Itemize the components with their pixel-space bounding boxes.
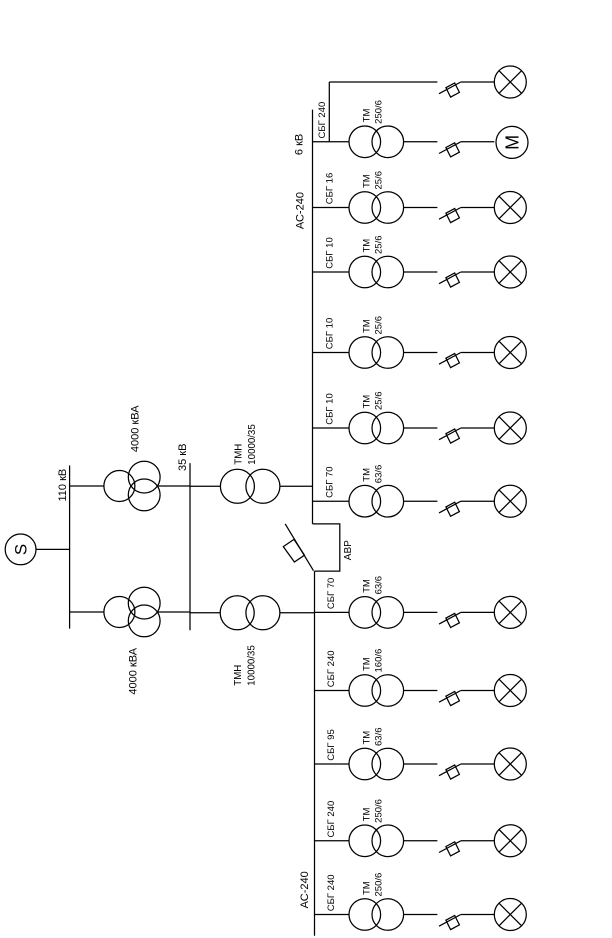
svg-text:СБГ 240: СБГ 240 (317, 102, 328, 139)
svg-text:ТМ: ТМ (362, 174, 373, 188)
svg-text:160/6: 160/6 (374, 649, 385, 673)
transformer T2 4000 кВА (three-winding) (104, 587, 160, 637)
wire switch to load (F8) (461, 690, 495, 692)
wire tap F7 from 6kV bus (315, 611, 350, 613)
svg-text:ТМ: ТМ (362, 319, 373, 333)
svg-text:СБГ 16: СБГ 16 (325, 173, 336, 204)
wire tap F2 from 6kV bus (313, 207, 350, 209)
bus 110 кВ (69, 466, 71, 629)
wire switch to load (F2) (461, 207, 495, 209)
transformer ТМ 25/6 (F2) (349, 192, 404, 224)
label ТМ 63/6 (F7) (362, 576, 385, 595)
label ТМ 63/6 (F9) (362, 728, 385, 747)
transformer T4 ТМН 10000/35 (220, 596, 280, 630)
wire bus110 to transformer T2 (70, 611, 104, 613)
wire bus35 to transformer T4 (190, 612, 220, 614)
АВР tie link (U jog) (313, 524, 340, 571)
wire tap F9 from 6kV bus (315, 763, 350, 765)
svg-text:ТМ: ТМ (362, 731, 373, 745)
transformer T3 ТМН 10000/35 (220, 469, 280, 503)
label ТМН 10000/35 (T3) (234, 424, 259, 464)
wire transformer to switch (F3) (404, 271, 438, 273)
svg-text:25/6: 25/6 (374, 236, 385, 255)
svg-text:СБГ 10: СБГ 10 (325, 237, 336, 268)
switch (disconnector with breaker) (439, 612, 461, 627)
wire branch from feeder F1 to feeder A (328, 82, 330, 142)
wire tap F1 from 6kV bus (313, 141, 350, 143)
svg-text:10000/35: 10000/35 (247, 424, 258, 464)
АВР breaker square (283, 539, 304, 562)
svg-text:ТМ: ТМ (362, 881, 373, 895)
wire tap F6 from 6kV bus (313, 500, 350, 502)
wire tap F11 from 6kV bus (315, 914, 350, 916)
wire transformer to switch (F7) (404, 611, 438, 613)
wire switch to load (F9) (461, 763, 495, 765)
label ТМ 63/6 (F6) (362, 465, 385, 484)
transformer ТМ 63/6 (F9) (349, 748, 404, 780)
switch (disconnector with breaker) (439, 915, 461, 930)
wire T3 to 6kV bus section 1 (280, 485, 313, 487)
transformer ТМ 25/6 (F4) (349, 337, 404, 369)
svg-text:ТМ: ТМ (362, 108, 373, 122)
wire feeder A drop (329, 81, 437, 83)
svg-text:СБГ 70: СБГ 70 (326, 578, 337, 609)
label ТМ 25/6 (F3) (362, 236, 385, 255)
wire switch to load (F3) (461, 271, 495, 273)
wire transformer to switch (F2) (404, 207, 438, 209)
svg-text:250/6: 250/6 (374, 799, 385, 823)
svg-text:АС-240: АС-240 (299, 871, 311, 908)
svg-text:СБГ 240: СБГ 240 (326, 650, 337, 687)
label ТМ 160/6 (F8) (362, 649, 385, 673)
svg-text:ТМ: ТМ (362, 239, 373, 253)
transformer ТМ 250/6 (F1) (349, 126, 404, 158)
wire transformer to switch (F5) (404, 427, 438, 429)
wire tap F10 from 6kV bus (315, 840, 350, 842)
svg-text:СБГ 70: СБГ 70 (325, 466, 336, 497)
wire tap F5 from 6kV bus (313, 427, 350, 429)
АВР switch blade (285, 524, 313, 571)
wire T2 to 35kV bus (157, 611, 190, 613)
lamp load (F10) (494, 825, 526, 857)
lamp load (F4) (494, 337, 526, 369)
svg-text:25/6: 25/6 (374, 392, 385, 411)
svg-text:ТМН: ТМН (234, 444, 245, 465)
lamp load (F11) (494, 899, 526, 931)
transformer T1 4000 кВА (three-winding) (104, 461, 160, 511)
svg-text:СБГ 240: СБГ 240 (326, 874, 337, 911)
lamp load (F7) (494, 596, 526, 628)
switch (disconnector with breaker) (439, 82, 461, 97)
label ТМ 250/6 (F10) (362, 799, 385, 823)
wire transformer to switch (F8) (404, 690, 438, 692)
label ТМ 25/6 (F4) (362, 316, 385, 335)
label ТМ 25/6 (F5) (362, 392, 385, 411)
svg-text:СБГ 10: СБГ 10 (325, 393, 336, 424)
wire tap F8 from 6kV bus (315, 690, 350, 692)
wire bus110 to transformer T1 (70, 485, 104, 487)
svg-text:ТМ: ТМ (362, 395, 373, 409)
wire switch to load (F11) (461, 914, 495, 916)
svg-text:63/6: 63/6 (374, 465, 385, 484)
wire switch to load (F10) (461, 840, 495, 842)
svg-text:ТМН: ТМН (233, 665, 244, 686)
wire bus35 to transformer T3 (190, 485, 221, 487)
svg-text:ТМ: ТМ (362, 657, 373, 671)
source S (5, 534, 36, 565)
transformer ТМ 250/6 (F11) (349, 899, 404, 931)
svg-text:S: S (12, 544, 31, 555)
label ТМ 250/6 (F11) (362, 873, 385, 897)
wire switch to load (F1) (461, 141, 495, 143)
lamp load (F8) (494, 675, 526, 707)
svg-text:25/6: 25/6 (374, 316, 385, 335)
transformer ТМ 160/6 (F8) (349, 675, 404, 707)
switch (disconnector with breaker) (439, 142, 461, 157)
wire tap F4 from 6kV bus (313, 352, 350, 354)
bus 6 кВ section 2 (314, 571, 316, 936)
switch (disconnector with breaker) (439, 353, 461, 368)
bus 35 кВ (189, 463, 191, 630)
svg-text:63/6: 63/6 (374, 728, 385, 747)
wire transformer to switch (F1) (404, 141, 438, 143)
lamp load (F2) (494, 192, 526, 224)
lamp load (F9) (494, 748, 526, 780)
label ТМН 10000/35 (T4) (233, 645, 257, 685)
wire source to 110kV bus (36, 548, 70, 550)
lamp load (F6) (494, 485, 526, 517)
svg-text:35 кВ: 35 кВ (177, 444, 189, 471)
svg-text:ТМ: ТМ (362, 468, 373, 482)
switch (disconnector with breaker) (439, 841, 461, 856)
switch (disconnector with breaker) (439, 691, 461, 706)
svg-text:4000 кВА: 4000 кВА (128, 647, 140, 694)
lamp load (feeder A) (494, 66, 526, 98)
svg-text:ТМ: ТМ (362, 807, 373, 821)
switch (disconnector with breaker) (439, 764, 461, 779)
switch (disconnector with breaker) (439, 208, 461, 223)
switch (disconnector with breaker) (439, 428, 461, 443)
lamp load (F3) (494, 256, 526, 288)
switch (disconnector with breaker) (439, 501, 461, 516)
bus 6 кВ section 1 (312, 110, 314, 524)
svg-text:СБГ 95: СБГ 95 (326, 729, 337, 760)
wire T4 to 6kV bus section 2 (280, 612, 315, 614)
motor M (F1) (496, 126, 528, 158)
svg-text:СБГ 240: СБГ 240 (326, 801, 337, 838)
wire switch to load (F4) (461, 352, 495, 354)
svg-text:М: М (502, 135, 522, 150)
wire transformer to switch (F10) (404, 840, 438, 842)
svg-text:250/6: 250/6 (374, 100, 385, 124)
wire switch to lamp (feeder A) (461, 81, 495, 83)
svg-text:25/6: 25/6 (374, 171, 385, 190)
svg-text:СБГ 10: СБГ 10 (325, 318, 336, 349)
switch (disconnector with breaker) (439, 272, 461, 287)
svg-text:АВР: АВР (343, 540, 354, 560)
lamp load (F5) (494, 412, 526, 444)
wire switch to load (F6) (461, 500, 495, 502)
wire switch to load (F5) (461, 427, 495, 429)
svg-text:10000/35: 10000/35 (246, 645, 257, 685)
wire transformer to switch (F4) (404, 352, 438, 354)
svg-text:АС-240: АС-240 (294, 192, 306, 229)
wire transformer to switch (F9) (404, 763, 438, 765)
transformer ТМ 25/6 (F5) (349, 412, 404, 444)
transformer ТМ 63/6 (F7) (349, 597, 404, 629)
label ТМ 250/6 (F1) (362, 100, 385, 124)
transformer ТМ 63/6 (F6) (349, 485, 404, 517)
svg-text:4000 кВА: 4000 кВА (129, 405, 141, 452)
wire T1 to 35kV bus (157, 485, 190, 487)
wire transformer to switch (F6) (404, 500, 438, 502)
wire transformer to switch (F11) (404, 914, 438, 916)
wire tap F3 from 6kV bus (313, 271, 350, 273)
label ТМ 25/6 (F2) (362, 171, 385, 190)
transformer ТМ 25/6 (F3) (349, 256, 404, 288)
transformer ТМ 250/6 (F10) (349, 825, 404, 857)
svg-text:6 кВ: 6 кВ (294, 134, 306, 155)
svg-text:110 кВ: 110 кВ (57, 469, 69, 502)
wire switch to load (F7) (461, 611, 495, 613)
svg-text:ТМ: ТМ (362, 579, 373, 593)
svg-text:250/6: 250/6 (374, 873, 385, 897)
svg-text:63/6: 63/6 (374, 576, 385, 595)
